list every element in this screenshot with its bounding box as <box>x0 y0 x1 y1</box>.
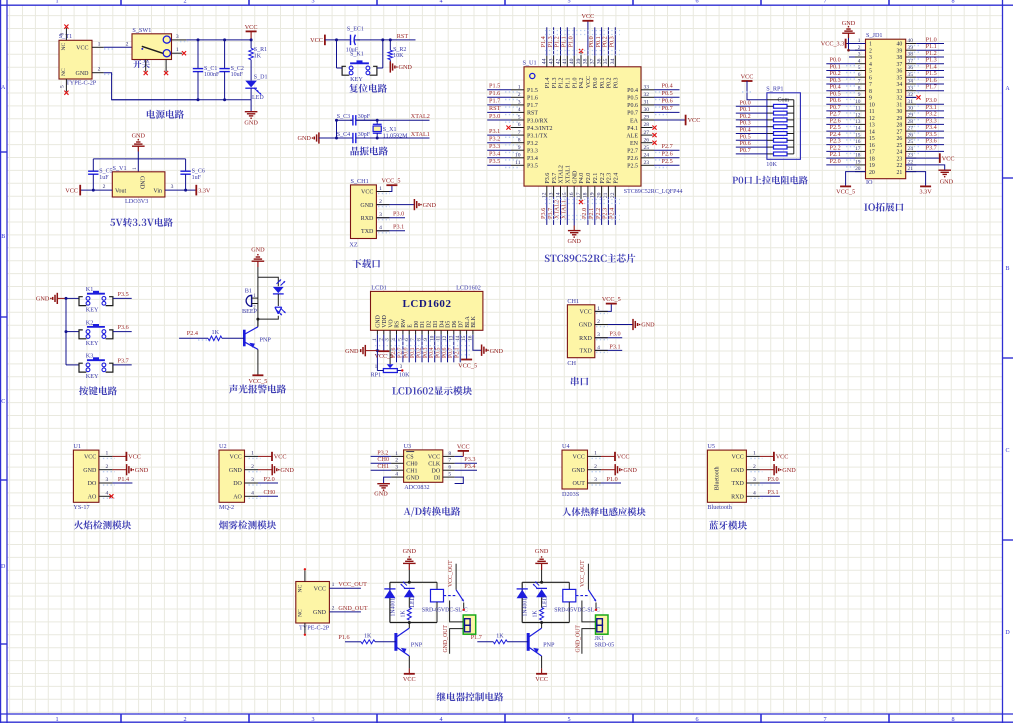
wire GND down <box>257 267 259 277</box>
pin number 1 <box>858 38 861 44</box>
wire pin1 to VCC_5 <box>376 185 392 191</box>
pin lead 14 <box>459 330 461 334</box>
label PNP <box>543 641 555 648</box>
button trunk <box>65 298 67 365</box>
pin name P1.3 <box>552 77 558 88</box>
svg-text:P2.2: P2.2 <box>600 173 606 184</box>
svg-text:C: C <box>1005 448 1009 454</box>
svg-text:P0.4: P0.4 <box>627 88 638 94</box>
power port VCC <box>112 452 141 461</box>
svg-text:36: 36 <box>897 69 903 75</box>
power port GND <box>244 112 258 127</box>
label U5 <box>707 443 715 450</box>
pin name D4 <box>439 321 445 328</box>
net label P2.1 <box>588 208 595 219</box>
pin lead <box>641 157 654 159</box>
net label P2.5 <box>662 158 673 165</box>
power port GND <box>251 247 265 267</box>
svg-text:1K: 1K <box>364 633 372 639</box>
svg-text:AO: AO <box>88 495 97 501</box>
net label P0.0 <box>740 99 751 106</box>
pin number 22 <box>610 192 616 198</box>
svg-text:P0.3: P0.3 <box>423 347 429 358</box>
grid dots <box>910 58 920 60</box>
pin lead 4 <box>376 230 389 232</box>
svg-text:P0.7: P0.7 <box>627 111 638 117</box>
pin number 12 <box>442 335 448 341</box>
pin number 4 <box>379 225 382 231</box>
svg-text:Bluetooth: Bluetooth <box>707 504 732 511</box>
pin lead <box>855 83 866 85</box>
label LED <box>252 95 264 101</box>
svg-text:RXD: RXD <box>361 216 374 222</box>
svg-text:P0.7: P0.7 <box>740 147 751 154</box>
net label P3.5 <box>926 131 937 138</box>
pin number 8 <box>448 451 451 457</box>
title 火焰检测模块 <box>74 520 131 529</box>
pin lead <box>906 117 917 119</box>
pin number 20 <box>855 166 861 172</box>
wire CH1 <box>371 469 392 471</box>
net label P3.5 <box>118 291 129 298</box>
pin number 14 <box>455 335 461 341</box>
pin name 36 <box>897 69 903 75</box>
junction <box>376 119 379 122</box>
no-ERC marker <box>64 25 68 29</box>
pin lead <box>511 157 524 159</box>
pin name VCC <box>579 310 591 316</box>
wire pin 4 <box>258 495 278 497</box>
LED <box>401 582 415 598</box>
svg-text:STC89C52RC_LQFP44: STC89C52RC_LQFP44 <box>624 189 683 195</box>
pin lead <box>855 49 866 51</box>
pin lead 4 <box>245 495 259 497</box>
pin lead <box>855 130 866 132</box>
pin lead 5 <box>402 330 404 334</box>
svg-text:VCC_5: VCC_5 <box>382 178 401 185</box>
svg-text:GND: GND <box>940 178 954 185</box>
pin name GND <box>360 203 374 209</box>
svg-text:P3.5: P3.5 <box>527 164 538 170</box>
net label P1.2 <box>554 36 561 47</box>
label TYPE-C-2P <box>66 79 97 86</box>
pin lead 1 <box>746 455 760 457</box>
svg-text:VCC: VCC <box>76 46 88 52</box>
pin name P0.1 <box>600 77 606 88</box>
title 晶振电路 <box>351 146 388 155</box>
svg-text:15: 15 <box>869 136 875 142</box>
wire P3.7 <box>916 150 944 152</box>
wire XTAL1 <box>356 137 430 139</box>
wire XTAL2 <box>356 119 430 121</box>
potentiometer RP1 <box>377 364 401 372</box>
transistor Q (PNP) <box>244 327 258 350</box>
power port VCC left <box>310 35 325 46</box>
transistor Q (PNP) <box>528 628 541 656</box>
svg-text:Vin: Vin <box>153 188 162 194</box>
svg-text:D2: D2 <box>427 321 433 328</box>
net label P1.7 <box>489 98 500 105</box>
pin number 6 <box>518 122 521 128</box>
svg-text:SRD-05: SRD-05 <box>595 642 615 648</box>
label S_CH1 <box>351 178 369 185</box>
wire pin 12 <box>447 335 449 363</box>
LED <box>533 582 547 598</box>
pin number 32 <box>644 92 650 98</box>
pin name P0.6 <box>627 103 638 109</box>
grid dots <box>910 139 920 141</box>
title LCD1602显示模块 <box>392 386 472 395</box>
svg-text:P2.6: P2.6 <box>662 151 673 158</box>
net label P1.0 <box>567 36 574 47</box>
svg-text:CH1: CH1 <box>377 463 389 470</box>
pin name P2.1 <box>593 173 599 184</box>
pin name P3.0/RX <box>527 118 549 124</box>
svg-text:VCC_OUT: VCC_OUT <box>580 560 586 587</box>
label K1 <box>86 286 94 293</box>
pin name 15 <box>869 136 875 142</box>
power port GND <box>297 132 318 143</box>
wire K1 out <box>113 297 132 299</box>
svg-text:P0.3: P0.3 <box>609 36 616 47</box>
wire pin 3 <box>112 482 132 484</box>
relay top rail <box>522 581 569 583</box>
pin number 23 <box>644 160 650 166</box>
wire branch down right <box>382 40 384 68</box>
svg-text:13: 13 <box>869 123 875 129</box>
label U2 <box>219 443 227 450</box>
pin name P4.3/INT2 <box>527 126 553 132</box>
ADC U3 (ADC0832) <box>404 450 443 482</box>
capacitor S_C3 <box>350 115 377 125</box>
net label P2.2 <box>595 208 602 219</box>
svg-text:P2.4: P2.4 <box>609 208 616 219</box>
pin number 6 <box>858 72 861 78</box>
net label P0.7 <box>740 147 751 154</box>
svg-text:1: 1 <box>251 451 254 457</box>
svg-text:34: 34 <box>897 82 903 88</box>
svg-text:37: 37 <box>897 62 903 68</box>
pin lead <box>855 157 866 159</box>
net label VCC_OUT <box>580 560 586 587</box>
power port VCC <box>245 24 258 40</box>
pin lead <box>906 96 917 98</box>
pin number 8 <box>417 338 423 341</box>
pin number 2 <box>106 464 109 470</box>
pin number 34 <box>908 79 914 85</box>
svg-text:28: 28 <box>897 123 903 129</box>
pin name P4.2 <box>579 77 585 88</box>
svg-text:D1: D1 <box>420 321 426 328</box>
pin lead 1 <box>245 455 259 457</box>
grid dots <box>846 112 856 114</box>
junction <box>65 297 68 300</box>
svg-text:P3.4: P3.4 <box>527 156 538 162</box>
wire VCC to switch <box>104 46 132 48</box>
net label P3.6 <box>926 138 937 145</box>
svg-text:1K: 1K <box>212 329 220 336</box>
resistor element 4 <box>767 125 794 129</box>
pin number 3 <box>171 184 174 190</box>
svg-text:P4.0: P4.0 <box>579 173 585 184</box>
Com internal wire <box>767 99 794 101</box>
grid dots <box>750 484 762 486</box>
compile mask band <box>545 31 620 220</box>
module U4 (D203S) <box>562 450 588 489</box>
net label VCC_OUT <box>448 560 454 587</box>
transistor Q (PNP) <box>396 628 409 656</box>
svg-text:S_JD1: S_JD1 <box>866 32 883 39</box>
wire coil top <box>568 582 570 589</box>
grid dots <box>750 497 762 499</box>
svg-text:11: 11 <box>869 109 875 115</box>
svg-text:10uF: 10uF <box>231 72 244 78</box>
pin lead <box>855 76 866 78</box>
pin lead 7 <box>443 462 455 464</box>
pin number 2 <box>103 184 106 190</box>
net label P3.0 <box>393 211 404 218</box>
pin name D6 <box>452 321 458 328</box>
wire pin1 to VCC_5 <box>595 304 612 312</box>
svg-text:DI: DI <box>434 475 440 481</box>
net label P3.1 <box>489 128 500 135</box>
pin lead <box>511 104 524 106</box>
svg-text:P3.1: P3.1 <box>489 128 500 135</box>
pin number 21 <box>603 192 609 198</box>
svg-text:VCC: VCC <box>314 587 326 593</box>
svg-text:2: 2 <box>98 67 101 73</box>
capacitor S_C4 <box>350 133 377 143</box>
switch blade <box>588 590 596 602</box>
svg-text:5: 5 <box>567 716 570 723</box>
pin name P4.1 <box>627 126 638 132</box>
pin lead 10 <box>434 330 436 334</box>
net label P0.5 <box>830 90 841 97</box>
wire P0.7 <box>736 153 767 155</box>
wire P1.1 <box>916 49 944 51</box>
pin lead <box>573 56 575 67</box>
svg-text:ALE: ALE <box>626 133 638 139</box>
svg-text:KEY: KEY <box>350 76 363 83</box>
pin 39 stub <box>580 52 582 66</box>
pin name P3.5 <box>527 164 538 170</box>
power port VCC <box>535 668 548 683</box>
svg-text:S_U1: S_U1 <box>523 60 537 67</box>
net label P3.2 <box>926 111 937 118</box>
net label P1.3 <box>926 57 937 64</box>
svg-text:3: 3 <box>311 716 314 723</box>
wire pin 11 <box>440 335 442 363</box>
net label P3.7 <box>926 144 937 151</box>
label 1K <box>533 610 539 618</box>
pin lead <box>641 89 654 91</box>
net label P0.3 <box>609 36 616 47</box>
svg-text:AO: AO <box>233 495 242 501</box>
svg-text:6: 6 <box>695 0 698 4</box>
pin number 32 <box>908 92 914 98</box>
pin lead <box>614 56 616 67</box>
grid dots <box>846 119 856 121</box>
svg-text:NC: NC <box>61 68 67 76</box>
wire RST to R2 <box>389 40 391 50</box>
net label P3.4 <box>926 124 937 131</box>
wire pin 41 <box>566 27 568 56</box>
junction <box>223 98 226 101</box>
label GND <box>374 490 388 497</box>
wire pin 40 <box>573 27 575 56</box>
wire pin 19 <box>594 197 596 225</box>
compile mask dots <box>375 341 470 355</box>
pin name DO <box>88 481 97 487</box>
pin name VCC <box>84 455 96 461</box>
svg-text:7: 7 <box>823 716 826 723</box>
label KEY <box>350 76 363 83</box>
svg-text:P1.2: P1.2 <box>559 77 565 88</box>
pin lead 3 <box>588 482 602 484</box>
pin name 30 <box>897 109 903 115</box>
pin name DI <box>434 475 440 481</box>
pin lead 1 <box>99 455 113 457</box>
pin lead <box>906 49 917 51</box>
pin lead <box>906 164 917 166</box>
svg-text:S_EC1: S_EC1 <box>347 27 364 33</box>
pin lead <box>906 90 917 92</box>
pin lead <box>566 56 568 67</box>
svg-text:30pF: 30pF <box>358 114 371 120</box>
grid dots <box>846 159 856 161</box>
power port GND <box>377 484 390 491</box>
pin number 5 <box>858 65 861 71</box>
svg-text:VCC_5: VCC_5 <box>602 296 621 303</box>
pin number 17 <box>576 192 582 198</box>
svg-text:14: 14 <box>869 129 875 135</box>
pin number 8 <box>858 85 861 91</box>
svg-text:VCC: VCC <box>573 455 585 461</box>
power port GND left <box>345 345 365 356</box>
pin name DO <box>432 468 441 474</box>
net label P0.1 <box>830 64 841 71</box>
pin number 24 <box>908 146 914 152</box>
svg-text:2: 2 <box>251 464 254 470</box>
label S_X1 <box>383 127 397 133</box>
pin lead <box>553 56 555 67</box>
power port VCC <box>760 452 789 461</box>
svg-text:8: 8 <box>869 89 872 95</box>
svg-text:P1.6: P1.6 <box>489 90 500 97</box>
pin number 3 <box>594 477 597 483</box>
pin lead <box>641 119 654 121</box>
grid dots <box>655 106 667 108</box>
svg-text:10K: 10K <box>393 53 404 59</box>
button S_K1 <box>342 60 377 75</box>
svg-text:K3: K3 <box>86 353 94 360</box>
wire pin 1 GND <box>376 335 378 371</box>
wire P2.7 <box>826 117 855 119</box>
pin number 9 <box>518 145 521 151</box>
pin name 13 <box>869 123 875 129</box>
label SRD-05 <box>595 642 615 648</box>
svg-text:P3.6: P3.6 <box>118 324 129 331</box>
net label P3.2 <box>489 136 500 143</box>
svg-text:P3.2: P3.2 <box>527 141 538 147</box>
pin name BLA <box>465 315 471 327</box>
grid dots <box>846 139 856 141</box>
title 电源电路 <box>147 110 184 119</box>
wire rail to Vreg <box>137 159 139 172</box>
no-ERC marker <box>506 126 510 130</box>
label ADC0832 <box>404 484 429 491</box>
net label P0.5 <box>436 347 442 358</box>
resistor network S_RP1 outline <box>767 93 801 160</box>
svg-text:CH0: CH0 <box>264 489 276 496</box>
junction <box>223 38 226 41</box>
pin name D2 <box>427 321 433 328</box>
pin number 43 <box>548 58 554 64</box>
svg-text:3: 3 <box>251 477 254 483</box>
svg-text:GND: GND <box>313 610 327 616</box>
power port GND <box>633 319 655 330</box>
pin lead 2 <box>383 330 385 334</box>
pin name 39 <box>897 48 903 54</box>
pin number 3 <box>518 100 521 106</box>
svg-text:9: 9 <box>869 96 872 102</box>
svg-text:VCC: VCC <box>128 454 141 461</box>
pin number 1 <box>375 365 378 370</box>
pin lead <box>641 164 654 166</box>
grid dots <box>103 471 115 473</box>
pin number 29 <box>908 112 914 118</box>
svg-text:P2.1: P2.1 <box>455 347 461 358</box>
svg-text:VCC: VCC <box>310 37 323 44</box>
wire top to C3 <box>337 119 353 121</box>
wire P0.2 <box>736 119 767 121</box>
svg-text:22: 22 <box>897 163 903 169</box>
label S_SW1 <box>132 27 151 34</box>
svg-text:GND: GND <box>423 202 437 209</box>
svg-text:S_X1: S_X1 <box>383 127 397 133</box>
base wire <box>477 641 493 643</box>
pin lead 1 <box>376 330 378 334</box>
net label P0.2 <box>740 113 751 120</box>
short stub pin 3 <box>849 56 855 58</box>
pin name RXD <box>361 216 374 222</box>
wire VCC to R1 <box>250 40 252 48</box>
wire rail VCC <box>186 39 251 41</box>
relay coil SRD-05VDC-SL-C <box>431 589 444 602</box>
net label P2.4 <box>609 208 616 219</box>
resistor R (1K) <box>208 336 222 341</box>
wire pin 12 <box>546 197 548 225</box>
resistor 1K <box>407 608 411 621</box>
svg-text:S_K1: S_K1 <box>350 52 364 58</box>
wire pin 8 <box>487 142 511 144</box>
label 100nF <box>204 72 220 78</box>
no-ERC marker <box>652 133 656 137</box>
grid dots <box>846 166 856 168</box>
wire pin 3 <box>487 104 511 106</box>
pin name P2.6 <box>627 156 638 162</box>
pin lead 4 <box>595 349 608 351</box>
wire pin 3 <box>601 482 621 484</box>
svg-text:1N4001: 1N4001 <box>523 598 529 617</box>
wire pin 10 <box>434 335 436 363</box>
wire pin 4 <box>396 335 398 363</box>
grid dots <box>505 167 519 169</box>
junction <box>847 49 850 52</box>
svg-text:P1.0: P1.0 <box>572 77 578 88</box>
label PNP <box>411 641 423 648</box>
svg-text:40: 40 <box>897 42 903 48</box>
